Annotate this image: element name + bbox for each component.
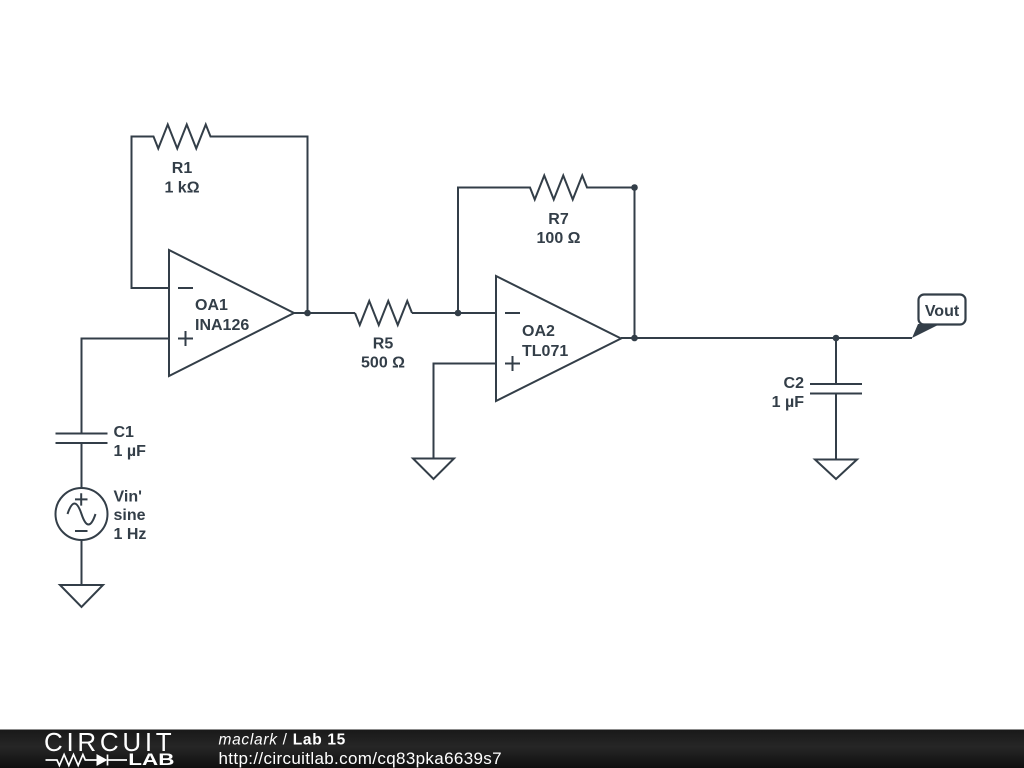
svg-text:1 Hz: 1 Hz: [114, 526, 147, 543]
wire C1 to source: [81, 443, 83, 488]
svg-text:OA2: OA2: [522, 323, 555, 340]
svg-text:OA1: OA1: [195, 297, 228, 314]
node OA2 output: [631, 335, 638, 342]
svg-text:Vin': Vin': [114, 489, 142, 506]
capacitor C1: [56, 424, 147, 460]
svg-text:LAB: LAB: [128, 751, 174, 768]
voltage source V1 Vin': [56, 488, 147, 543]
ground (C2): [815, 460, 857, 480]
ground (source): [60, 585, 103, 607]
node OA1 output: [304, 310, 311, 317]
node R7 top right corner: [631, 184, 638, 191]
wire C2 to ground: [835, 394, 837, 460]
wire R5 to OA2 inverting input: [412, 312, 496, 314]
wire output to C2: [835, 338, 837, 384]
svg-text:100 Ω: 100 Ω: [537, 230, 581, 247]
flag Vout: [912, 295, 966, 339]
svg-text:C2: C2: [784, 375, 805, 392]
ground (OA2 +): [413, 459, 454, 480]
wire to OA1 inverting input: [131, 287, 170, 289]
svg-text:R5: R5: [373, 336, 394, 353]
wire OA2 non-inverting input to ground: [434, 364, 497, 459]
wire R1 loop right vertical down to OA1 output: [307, 136, 309, 314]
wire feedback right vertical down to output: [634, 188, 636, 339]
svg-text:Vout: Vout: [925, 303, 960, 320]
resistor R7: [457, 176, 635, 248]
svg-text:C1: C1: [114, 424, 135, 441]
footer bar: [0, 730, 1024, 768]
logo schematic resistor-diode: [46, 754, 128, 766]
svg-text:1 kΩ: 1 kΩ: [164, 180, 199, 197]
svg-text:TL071: TL071: [522, 343, 568, 360]
svg-text:R1: R1: [172, 160, 193, 177]
wire source to ground: [81, 540, 83, 585]
wire OA1 output to R5: [294, 312, 355, 314]
resistor R5: [355, 301, 412, 372]
op-amp OA1: [169, 250, 294, 376]
wire feedback vertical up: [457, 188, 459, 314]
op-amp OA2: [496, 276, 621, 401]
svg-text:1 µF: 1 µF: [114, 443, 147, 460]
node C2 junction: [833, 335, 840, 342]
svg-text:http://circuitlab.com/cq83pka6: http://circuitlab.com/cq83pka6639s7: [219, 749, 502, 768]
svg-text:R7: R7: [548, 211, 569, 228]
svg-text:maclark / Lab 15: maclark / Lab 15: [219, 732, 347, 749]
svg-text:sine: sine: [114, 507, 146, 524]
capacitor C2: [772, 375, 862, 411]
svg-text:500 Ω: 500 Ω: [361, 355, 405, 372]
svg-text:INA126: INA126: [195, 317, 249, 334]
wire R1 loop left vertical: [131, 136, 133, 289]
wire OA1 non-inverting input: [82, 339, 170, 434]
resistor R1: [132, 125, 308, 197]
node R5 / feedback junction: [455, 310, 462, 317]
svg-text:1 µF: 1 µF: [772, 394, 805, 411]
wire OA2 output to Vout: [621, 337, 912, 339]
